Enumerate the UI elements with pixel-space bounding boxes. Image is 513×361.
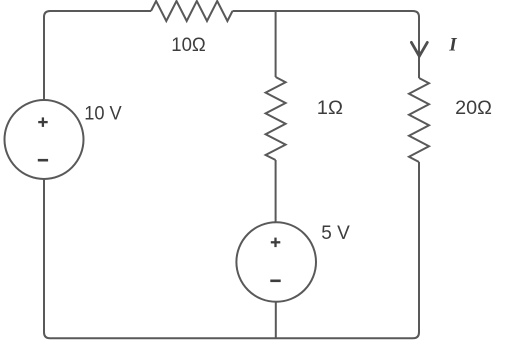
wire: middle branch from 5V source down to bottom node bbox=[275, 301, 277, 338]
svg-text:20Ω: 20Ω bbox=[455, 97, 492, 119]
resistor R2 1ohm (vertical zigzag, middle branch) bbox=[266, 77, 286, 160]
wire: left branch top + top-left corner + top wire to 10ohm resistor bbox=[44, 11, 151, 101]
V1 plus sign bbox=[38, 117, 48, 127]
wire: middle branch from top node down to 1ohm bbox=[275, 11, 277, 77]
svg-text:1Ω: 1Ω bbox=[317, 97, 343, 119]
voltage source V2 5V (circle) bbox=[236, 222, 316, 302]
svg-text:10Ω: 10Ω bbox=[171, 34, 206, 56]
svg-text:10 V: 10 V bbox=[84, 103, 122, 125]
V2 minus sign bbox=[270, 279, 280, 282]
V1 minus sign bbox=[38, 159, 48, 162]
svg-text:I: I bbox=[448, 34, 457, 55]
V2 plus sign bbox=[271, 238, 281, 248]
svg-text:5 V: 5 V bbox=[321, 222, 350, 244]
voltage source V1 10V (circle) bbox=[5, 100, 84, 179]
resistor R3 20ohm (vertical zigzag, right branch) bbox=[409, 78, 429, 162]
wire: middle branch from 1ohm down to 5V source bbox=[275, 160, 277, 223]
resistor R1 10ohm (horizontal zigzag, top wire) bbox=[151, 1, 233, 21]
wire: top wire from 10ohm to top-right corner, down right branch to 20ohm bbox=[233, 11, 420, 78]
wire: right branch below 20ohm + bottom wire + bottom corners + left branch below 10V source bbox=[44, 162, 419, 338]
current arrow I (down, on right branch) bbox=[411, 42, 427, 56]
